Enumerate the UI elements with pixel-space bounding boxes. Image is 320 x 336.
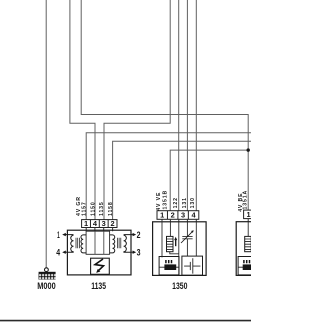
- 1350 right internal wire: [195, 222, 197, 256]
- wire 122 : vertical to 1350: [178, 0, 180, 211]
- svg-text:1158: 1158: [108, 201, 114, 216]
- junction dot at (248,150): [247, 148, 250, 151]
- ground M000: [37, 268, 55, 291]
- wire 1135 : top vertical x=170.4, left at y=123, down x=103.8 to 1135 pin 3: [104, 0, 170, 220]
- 1350 resistor element: [159, 266, 179, 268]
- svg-text:M000: M000: [37, 281, 55, 291]
- 1135 pin stubs into box: [86, 228, 112, 232]
- 1135 lightning bolt: [95, 259, 104, 272]
- 1350 internal divider: [178, 222, 180, 276]
- wire 131 : vertical to 1350: [186, 0, 188, 211]
- wire 1150 : top vertical x=70, right at y=123.5, down x=95 to 1135 pin 4: [70, 0, 95, 220]
- svg-text:4: 4: [56, 248, 60, 258]
- 1135 side pin 4 arrow: [64, 251, 67, 253]
- right resistor element: [238, 266, 251, 268]
- wire supply : top vertical x=81, right at y=114.4 to x=248, down to comp right pin 1: [81, 0, 248, 210]
- svg-text:1135: 1135: [91, 281, 106, 291]
- 1135 connector pin row pins 1 4 3 2: [82, 220, 117, 228]
- svg-text:1: 1: [160, 210, 164, 219]
- svg-text:1351B: 1351B: [163, 190, 169, 210]
- svg-text:1150: 1150: [90, 201, 96, 216]
- right resistor sub-box: [238, 257, 258, 275]
- svg-text:4V VE: 4V VE: [156, 192, 162, 211]
- right component box: [236, 222, 290, 276]
- 1350 pin stubs into box: [170, 219, 196, 222]
- 1135 side pin 2 arrow: [131, 234, 134, 236]
- 1350 pin1 internal wire to resistor box: [161, 219, 163, 257]
- svg-text:1: 1: [84, 219, 88, 228]
- svg-text:131: 131: [182, 197, 188, 208]
- 1350 solenoid coil: [167, 236, 174, 251]
- right coil wire: [247, 222, 249, 237]
- wire ground M000 vertical: [45, 0, 47, 268]
- 1135 left core bars: [76, 238, 79, 248]
- 1135 left secondary coil: [81, 235, 86, 253]
- right resistor marks: [244, 260, 250, 263]
- 1350 coil bottom link: [170, 252, 179, 254]
- 1350 box: [153, 222, 207, 276]
- 1350 battery element: [184, 258, 200, 273]
- 1135 right core bars: [117, 238, 120, 248]
- wire 1351B : from 1350 pin area up, right at y=150 to junction x=248: [170, 150, 248, 211]
- 1135 right primary coil: [124, 235, 131, 253]
- svg-text:1135: 1135: [99, 201, 105, 216]
- svg-text:3: 3: [181, 210, 185, 219]
- 1135 right secondary coil: [110, 235, 115, 253]
- svg-text:1157: 1157: [81, 201, 87, 216]
- 1350 battery sub-box: [182, 256, 203, 275]
- 1350 resistor marks: [166, 260, 172, 263]
- 1135 side pin 1 arrow: [64, 234, 67, 236]
- wire 1158 : from 1135 pin 2 up, right at y=141.2 to image edge: [113, 141, 251, 219]
- svg-text:3: 3: [137, 248, 141, 258]
- wire 1157 : from 1135 pin 1 up, right at y=132.8 to image edge: [86, 133, 251, 220]
- svg-text:122: 122: [173, 197, 179, 208]
- svg-text:1351A: 1351A: [243, 190, 249, 210]
- svg-text:2: 2: [111, 219, 115, 228]
- wire 130 : vertical to 1350: [195, 0, 197, 211]
- svg-text:2: 2: [137, 230, 141, 240]
- 1135 side pin 3 arrow: [131, 251, 134, 253]
- right solenoid coil: [245, 236, 252, 251]
- 1135 left primary coil: [67, 235, 73, 253]
- svg-text:2: 2: [171, 210, 175, 219]
- 1135 internal wires pins 4,3: [95, 231, 104, 254]
- svg-text:130: 130: [190, 197, 196, 208]
- svg-text:1: 1: [57, 230, 60, 240]
- 1350 connector pin row pins 1 2 3 4: [157, 211, 199, 220]
- svg-text:3: 3: [102, 219, 106, 228]
- 1135 center rect: [86, 231, 110, 254]
- svg-text:1350: 1350: [172, 281, 187, 291]
- 1350 variable capacitor: [182, 222, 192, 256]
- 1135 lightning box: [91, 258, 110, 274]
- right pin stub: [247, 219, 249, 222]
- svg-text:1: 1: [246, 210, 250, 219]
- 1350 coil wire: [169, 222, 171, 237]
- right connector pin box pin 1: [244, 210, 255, 219]
- 1135 box: [67, 230, 131, 275]
- bottom rule: [0, 320, 251, 322]
- 1350 coil arrow up: [175, 240, 177, 246]
- 1350 resistor sub-box: [159, 257, 179, 275]
